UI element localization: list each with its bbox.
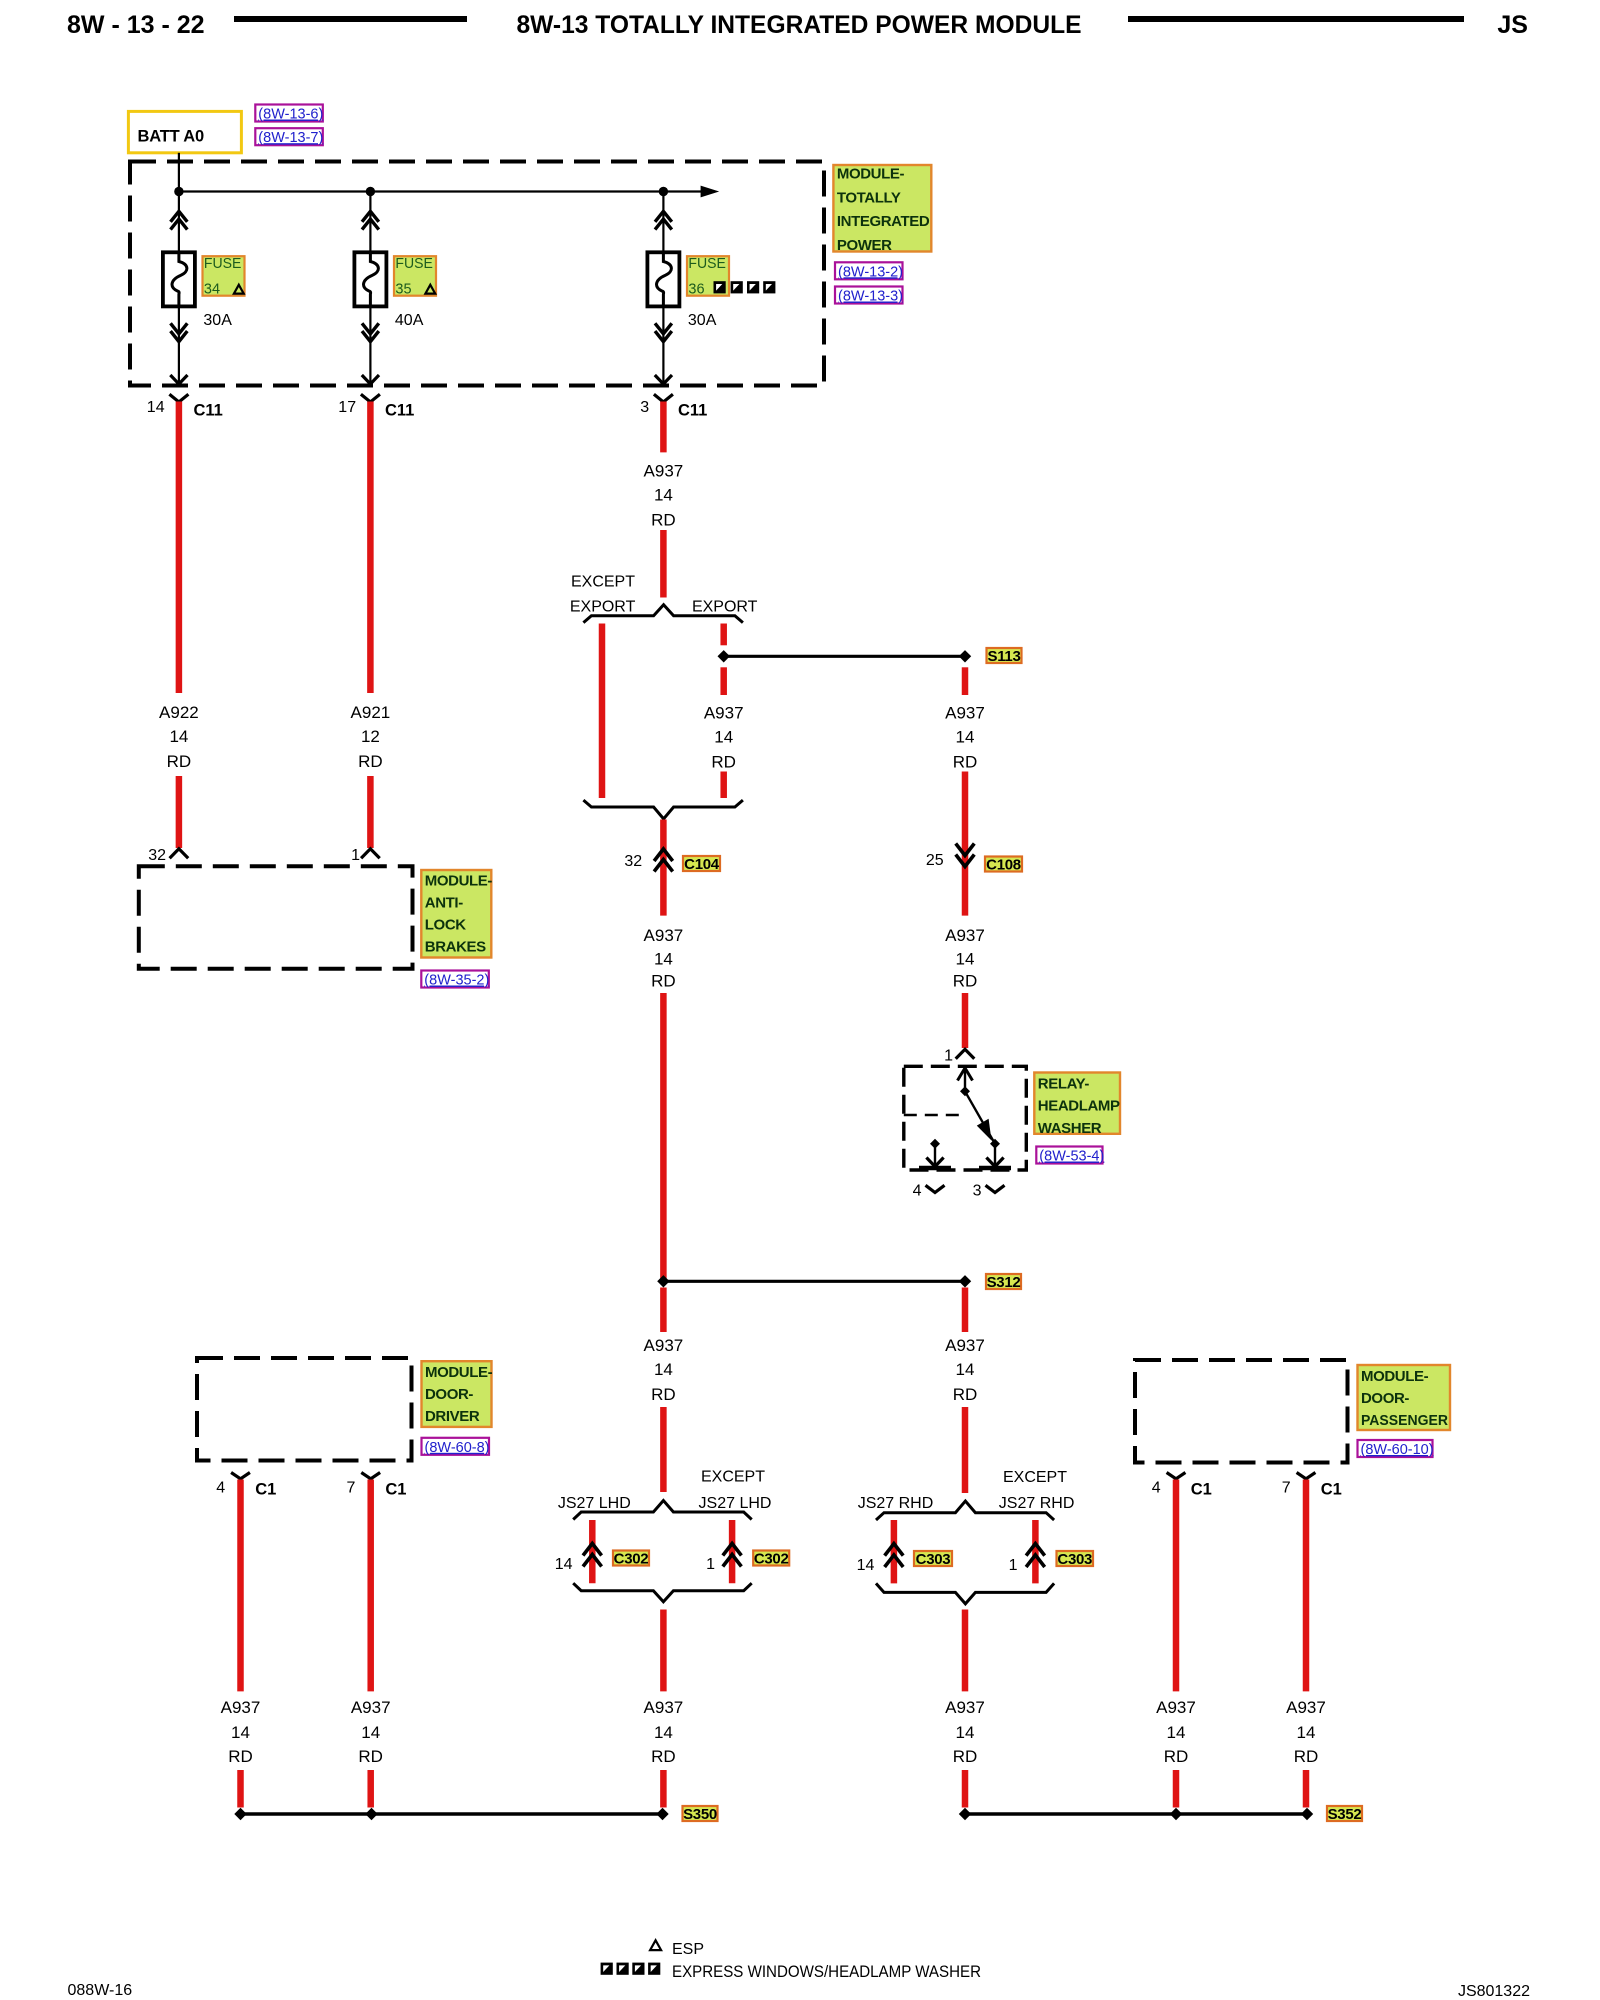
svg-text:1: 1 [351,847,360,864]
svg-text:FUSE: FUSE [688,255,726,272]
splice S352 node a [959,1808,971,1820]
fuse F36 rating [688,312,717,329]
brace split JS27 LHD [573,1501,752,1520]
svg-text:C303: C303 [916,1551,951,1568]
svg-text:RD: RD [1164,1747,1189,1766]
svg-text:BATT A0: BATT A0 [138,128,204,146]
relay pivot node [960,1086,970,1096]
wire arrow into C11 at fuse 34 [170,375,187,384]
wire splice S312 link [663,1280,965,1283]
svg-text:FUSE: FUSE [204,255,242,272]
brace merge JS27 LHD [573,1583,752,1602]
svg-text:8W-13 TOTALLY INTEGRATED POWER: 8W-13 TOTALLY INTEGRATED POWER MODULE [517,11,1082,39]
svg-text:4: 4 [216,1480,225,1497]
wire label A937 14 RD passenger pin 7 [1286,1698,1326,1766]
svg-text:RD: RD [651,1385,676,1404]
splice S312 node right [959,1275,971,1287]
wire fuse 36 input [655,192,672,253]
svg-text:A937: A937 [945,704,985,723]
splice S312 label [986,1274,1021,1291]
page title [517,11,1082,39]
link 8W-60-8 [422,1438,490,1456]
svg-text:RD: RD [953,1747,978,1766]
connector C108 [926,844,974,870]
svg-text:36: 36 [688,282,704,298]
connector C303 label b [1057,1551,1094,1568]
module door driver label [422,1361,493,1427]
wire label A937 14 RD export branch [704,704,744,772]
svg-text:EXPORT: EXPORT [692,599,758,616]
svg-text:JS27 RHD: JS27 RHD [999,1495,1075,1512]
splice S350 label [683,1806,718,1823]
svg-text:14: 14 [1167,1723,1186,1742]
svg-text:A937: A937 [644,926,684,945]
svg-text:14: 14 [654,1723,673,1742]
wire label A921 12 RD [351,703,391,771]
svg-text:(8W-60-8): (8W-60-8) [425,1440,490,1456]
svg-text:C1: C1 [1321,1481,1342,1499]
link 8W-13-6 [255,105,323,123]
wire A937 from driver pin 4 [237,1480,244,1692]
legend express windows text [672,1963,981,1981]
relay pin 4 bar [919,1166,951,1171]
battery feed BATT A0 [128,111,241,152]
connector relay pin 1 [944,1048,974,1065]
svg-text:DRIVER: DRIVER [425,1408,480,1425]
svg-text:ANTI-: ANTI- [425,895,463,912]
brace merge JS27 RHD [876,1583,1054,1603]
legend express windows symbols [601,1963,661,1975]
connector C303 label a [914,1551,952,1568]
footer sheet number [68,1982,133,1999]
svg-text:DOOR-: DOOR- [425,1386,473,1403]
svg-text:14: 14 [714,728,733,747]
svg-text:25: 25 [926,852,944,869]
wire fuse 34 output [171,306,188,385]
wire A937 below S312 right [962,1288,969,1333]
svg-text:INTEGRATED: INTEGRATED [837,213,930,230]
svg-text:A937: A937 [644,462,684,481]
wire A937 to S312 [660,993,667,1281]
svg-text:ESP: ESP [672,1941,704,1958]
module door passenger label [1358,1365,1451,1430]
svg-text:C1: C1 [255,1481,276,1499]
splice S312 node left [657,1275,669,1287]
link 8W-13-3 [835,287,903,305]
connector C1 pin 4 at x240 [216,1473,276,1499]
brace merge export [583,800,743,819]
connector C11 pin 17 [338,394,414,419]
svg-text:WASHER: WASHER [1038,1120,1102,1137]
wire A937 below LHD merge [660,1610,667,1692]
svg-text:14: 14 [147,399,165,416]
wire label A937 14 RD to S350 [644,1698,684,1766]
header rule left [234,16,467,22]
legend ESP text [672,1941,704,1958]
module TIPM dashed outline [130,162,824,386]
header code JS [1497,11,1528,39]
svg-text:088W-16: 088W-16 [68,1982,133,1999]
svg-text:S352: S352 [1328,1806,1362,1823]
svg-text:A937: A937 [644,1336,684,1355]
wire A937 from driver pin 7 [367,1480,374,1692]
junction node fuse 35 tap [366,187,375,196]
svg-text:JS27 LHD: JS27 LHD [699,1495,772,1512]
wire arrow into C11 at fuse 36 [655,375,672,384]
footer document id [1458,1983,1530,2000]
fuse F35 label [394,255,436,298]
wire label A937 14 RD below C11 [644,462,684,530]
label EXPORT [692,599,758,616]
svg-text:DOOR-: DOOR- [1361,1390,1409,1407]
link 8W-60-10 [1358,1440,1434,1458]
relay contact 3 node [990,1139,1000,1149]
svg-text:30A: 30A [203,312,232,329]
svg-text:A937: A937 [1156,1698,1196,1717]
module door passenger dashed outline [1135,1360,1348,1463]
wire export branch seg 3 [720,772,727,799]
svg-text:JS: JS [1497,11,1528,39]
wire A937 from C11 seg 2 [660,530,667,598]
wire into C104 [660,820,667,916]
wire passenger pin 4 into S352 [1173,1770,1180,1808]
fuse F35 rating [395,312,424,329]
wire label A937 14 RD passenger pin 4 [1156,1698,1196,1766]
splice S352 node b [1170,1808,1182,1820]
svg-text:MODULE-: MODULE- [1361,1368,1429,1385]
svg-text:14: 14 [654,950,673,969]
svg-text:JS801322: JS801322 [1458,1983,1530,2000]
svg-text:RD: RD [651,511,676,530]
wire splice S113 link [724,655,965,658]
svg-text:S312: S312 [987,1274,1021,1291]
svg-text:(8W-53-4): (8W-53-4) [1039,1149,1104,1165]
wire export branch seg 2 [720,667,727,695]
svg-text:S113: S113 [987,648,1020,665]
svg-text:C11: C11 [678,402,707,420]
wire A937 below S312 left [660,1288,667,1333]
svg-text:1: 1 [1009,1557,1018,1574]
svg-text:A937: A937 [221,1698,261,1717]
wire C303 branch b [1032,1520,1039,1583]
splice S113 label [987,648,1022,665]
svg-text:RD: RD [358,752,383,771]
svg-text:(8W-60-10): (8W-60-10) [1361,1442,1434,1458]
module ABS label [421,870,492,958]
wire except-export branch [599,624,606,799]
svg-text:FUSE: FUSE [395,255,433,272]
label EXCEPT JS27 LHD [699,1469,772,1513]
svg-text:(8W-13-7): (8W-13-7) [258,130,323,146]
svg-text:A937: A937 [644,1698,684,1717]
wire C302 branch a [589,1520,596,1583]
svg-text:C303: C303 [1057,1551,1092,1568]
svg-text:S350: S350 [683,1806,717,1823]
svg-text:PASSENGER: PASSENGER [1361,1412,1448,1429]
wire A937 into S350 [660,1770,667,1808]
relay pin 4 connector [913,1183,945,1200]
svg-text:C1: C1 [1191,1481,1212,1499]
svg-text:C302: C302 [754,1550,789,1567]
connector C303 pin 1 [1009,1544,1045,1574]
connector ABS pin 1 [351,847,380,864]
svg-text:RD: RD [651,1747,676,1766]
svg-text:JS27 LHD: JS27 LHD [558,1495,631,1512]
svg-text:(8W-13-2): (8W-13-2) [838,264,903,280]
label EXCEPT JS27 RHD [999,1469,1075,1512]
wire label A937 14 RD to S352 [945,1698,985,1766]
connector C108 label [985,856,1022,873]
svg-text:14: 14 [857,1557,875,1574]
svg-text:A937: A937 [945,1336,985,1355]
svg-text:14: 14 [956,1723,975,1742]
connector C1 pin 7 at x1306 [1282,1473,1342,1499]
wire label A937 14 RD below C108 [945,926,985,991]
svg-text:35: 35 [395,282,411,298]
svg-text:EXPRESS WINDOWS/HEADLAMP WASHE: EXPRESS WINDOWS/HEADLAMP WASHER [672,1963,981,1981]
svg-text:A937: A937 [704,704,744,723]
legend ESP symbol [650,1940,661,1950]
connector C11 pin 3 [640,394,707,419]
wire label A937 14 RD lhd [644,1336,684,1404]
svg-text:C302: C302 [614,1550,649,1567]
connector C104 [624,849,672,872]
svg-text:MODULE-: MODULE- [837,166,905,183]
wire fuse 36 output [655,306,672,385]
header rule right [1128,16,1464,22]
svg-text:C11: C11 [385,402,414,420]
link 8W-35-2 [421,971,489,989]
wire splice S350 bus [241,1812,663,1815]
svg-text:POWER: POWER [837,237,892,254]
svg-text:32: 32 [148,847,166,864]
relay pin 3 lead [986,1144,1003,1167]
fuse F35 [354,252,386,306]
svg-text:(8W-35-2): (8W-35-2) [424,973,489,989]
brace split export [583,605,743,623]
wire A937 from passenger pin 7 [1303,1480,1310,1692]
module TIPM label [833,165,931,254]
svg-text:12: 12 [361,727,380,746]
svg-text:JS27 RHD: JS27 RHD [858,1495,934,1512]
svg-text:A937: A937 [945,1698,985,1717]
wire arrow into C11 at fuse 35 [362,375,379,384]
wire driver pin 7 into S350 [367,1770,374,1808]
svg-text:34: 34 [204,282,220,298]
svg-text:RD: RD [953,1385,978,1404]
connector C302 label a [613,1550,649,1567]
wire A937 below RHD merge [962,1610,969,1692]
wire A921 segment 1 [367,402,374,694]
relay contact common [958,1068,973,1091]
svg-text:A922: A922 [159,703,199,722]
svg-text:32: 32 [624,853,642,870]
label EXCEPT EXPORT [570,574,636,616]
svg-text:A937: A937 [1286,1698,1326,1717]
svg-text:RD: RD [651,972,676,991]
connector C1 pin 4 at x1176 [1152,1473,1212,1499]
wire S113 branch seg 2 [962,772,969,916]
relay label [1034,1073,1120,1137]
wire A937 to RHD brace [962,1407,969,1493]
relay switch arm [965,1091,995,1144]
bus arrowhead [701,186,720,198]
svg-text:RD: RD [953,972,978,991]
wire label A937 14 RD driver pin 7 [351,1698,391,1766]
relay coil dashed line [904,1114,966,1116]
wire to relay pin 1 [962,993,969,1048]
wire A937 into S352 [962,1770,969,1808]
wire fuse 34 input [171,192,188,253]
svg-text:14: 14 [231,1723,250,1742]
module ABS dashed outline [139,866,413,969]
splice S350 node c [656,1808,668,1820]
svg-text:RD: RD [711,753,736,772]
svg-text:HEADLAMP: HEADLAMP [1038,1098,1120,1115]
relay dashed outline [904,1066,1027,1170]
relay pin 3 connector [973,1183,1005,1200]
connector ABS pin 32 [148,847,188,864]
wire A937 from C11 seg 1 [660,402,667,453]
svg-text:MODULE-: MODULE- [425,873,493,890]
svg-text:4: 4 [913,1183,922,1200]
svg-text:(8W-13-3): (8W-13-3) [838,289,903,305]
wire fuse 35 input [362,192,379,253]
wire S113 branch seg 1 [962,667,969,695]
wire label A937 14 RD S113 branch [945,704,985,772]
wire driver pin 4 into S350 [237,1770,244,1808]
svg-text:14: 14 [956,728,975,747]
svg-text:C104: C104 [684,856,720,873]
link 8W-13-7 [255,128,323,146]
svg-text:30A: 30A [688,312,717,329]
wire A922 segment 2 [176,776,183,848]
wire A921 segment 2 [367,776,374,848]
wire splice S352 bus [965,1812,1307,1815]
link 8W-53-4 [1036,1147,1104,1165]
wire label A937 14 RD driver pin 4 [221,1698,261,1766]
page number header [67,11,205,39]
fuse F34 [163,252,195,306]
wire C302 branch b [729,1520,736,1583]
fuse F36 label [687,255,775,298]
wire A922 segment 1 [176,402,183,694]
connector C302 pin 1 [706,1544,741,1574]
splice S352 label [1327,1806,1362,1823]
relay pin 3 bar [979,1166,1011,1171]
svg-text:BRAKES: BRAKES [425,939,486,956]
connector C104 label [683,856,720,873]
svg-text:4: 4 [1152,1480,1161,1497]
wire A937 from passenger pin 4 [1173,1480,1180,1692]
splice S113 node [959,650,971,662]
svg-text:14: 14 [956,1360,975,1379]
svg-text:LOCK: LOCK [425,917,466,934]
svg-text:EXPORT: EXPORT [570,599,636,616]
svg-text:3: 3 [973,1183,982,1200]
relay pin 4 node [930,1139,940,1149]
svg-text:A921: A921 [351,703,391,722]
svg-text:A937: A937 [351,1698,391,1717]
connector C302 pin 14 [555,1544,602,1574]
connector C11 pin 14 [147,394,223,419]
bus wire [179,190,703,192]
splice S350 node a [234,1808,246,1820]
svg-text:17: 17 [338,399,356,416]
svg-text:RD: RD [167,752,192,771]
svg-text:14: 14 [956,950,975,969]
svg-text:14: 14 [1297,1723,1316,1742]
svg-text:(8W-13-6): (8W-13-6) [258,107,323,123]
label JS27 RHD [858,1495,934,1512]
svg-text:MODULE-: MODULE- [425,1364,493,1381]
wire passenger pin 7 into S352 [1303,1770,1310,1808]
fuse F34 label [203,255,245,298]
svg-text:EXCEPT: EXCEPT [701,1469,765,1486]
brace split JS27 RHD [876,1501,1054,1520]
splice S350 node b [365,1808,377,1820]
svg-text:C1: C1 [385,1481,406,1499]
svg-text:8W - 13 - 22: 8W - 13 - 22 [67,11,205,39]
svg-text:EXCEPT: EXCEPT [1003,1469,1067,1486]
splice S352 node c [1301,1808,1313,1820]
svg-text:40A: 40A [395,312,424,329]
svg-text:14: 14 [361,1723,380,1742]
svg-text:14: 14 [169,727,188,746]
svg-text:RD: RD [358,1747,383,1766]
svg-text:3: 3 [640,399,649,416]
relay pin 4 lead [926,1144,943,1167]
link 8W-13-2 [835,262,903,280]
fuse F34 rating [203,312,232,329]
svg-text:RD: RD [228,1747,253,1766]
module door driver dashed outline [197,1358,412,1461]
label JS27 LHD [558,1495,631,1512]
svg-text:1: 1 [706,1556,715,1573]
svg-text:RELAY-: RELAY- [1038,1076,1090,1093]
svg-text:C11: C11 [194,402,223,420]
wire export branch seg 1 [720,624,727,646]
svg-text:14: 14 [654,1360,673,1379]
wire fuse 35 output [362,306,379,385]
svg-text:EXCEPT: EXCEPT [571,574,635,591]
svg-text:14: 14 [654,486,673,505]
connector C302 label b [753,1550,789,1567]
connector C303 pin 14 [857,1544,904,1574]
svg-text:7: 7 [1282,1480,1291,1497]
wire BATT A0 feed [178,153,180,192]
junction node fuse 34 tap [174,187,183,196]
svg-text:1: 1 [944,1048,953,1065]
svg-text:RD: RD [953,753,978,772]
wire C303 branch a [891,1520,898,1583]
wire A937 to LHD brace [660,1407,667,1492]
wire label A937 14 RD rhd [945,1336,985,1404]
svg-text:7: 7 [346,1480,355,1497]
svg-text:TOTALLY: TOTALLY [837,189,901,206]
fuse F36 [647,252,679,306]
svg-text:A937: A937 [945,926,985,945]
svg-text:C108: C108 [986,856,1021,873]
connector C1 pin 7 at x370 [346,1473,406,1499]
wire label A922 14 RD [159,703,199,771]
wire label A937 14 RD below C104 [644,926,684,991]
svg-text:14: 14 [555,1556,573,1573]
junction node export branch [718,650,730,662]
svg-text:RD: RD [1294,1747,1319,1766]
junction node fuse 36 tap [659,187,668,196]
